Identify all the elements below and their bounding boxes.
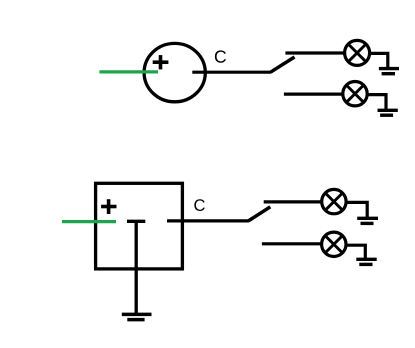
switch S2 arm <box>248 207 270 221</box>
plus polarity mark of B1 <box>101 199 116 214</box>
ground (top right 2) <box>378 110 398 115</box>
ground (bottom right 2) <box>356 259 376 264</box>
ground (below B1) <box>122 314 152 319</box>
wire (L2 to ground) <box>367 95 386 110</box>
wire (open stub to lamp L2) <box>284 92 344 95</box>
wire (switch S2 to lamp L3) <box>264 200 323 203</box>
wire (L3 to ground) <box>346 202 367 217</box>
wire (B1 to switch S2) <box>167 219 249 222</box>
lamp L2 <box>343 82 367 106</box>
wire (B1 internal electrode down to ground) <box>135 221 138 314</box>
voltage source V1 (circle) <box>144 43 205 101</box>
ground (top right 1) <box>379 69 399 74</box>
wire (green input to B1) <box>62 220 116 223</box>
wire (L1 to ground) <box>370 53 388 67</box>
wire (L4 to ground) <box>346 245 365 258</box>
switch S1 arm <box>271 57 295 72</box>
internal electrode plate (T) of B1 <box>127 220 145 223</box>
lamp L4 <box>322 232 346 256</box>
wire (switch S1 to lamp L1) <box>285 51 346 54</box>
node label C (bottom) <box>194 199 204 211</box>
wire (open stub to lamp L4) <box>262 242 323 245</box>
lamp L1 <box>345 40 370 65</box>
node label C (top) <box>215 50 226 62</box>
wire (V1 to switch S1) <box>192 71 271 74</box>
battery box B1 <box>96 183 183 269</box>
plus polarity mark of V1 <box>153 55 169 69</box>
ground (bottom right 1) <box>357 218 378 223</box>
wire (green input to V1) <box>99 70 158 73</box>
lamp L3 <box>322 189 346 213</box>
